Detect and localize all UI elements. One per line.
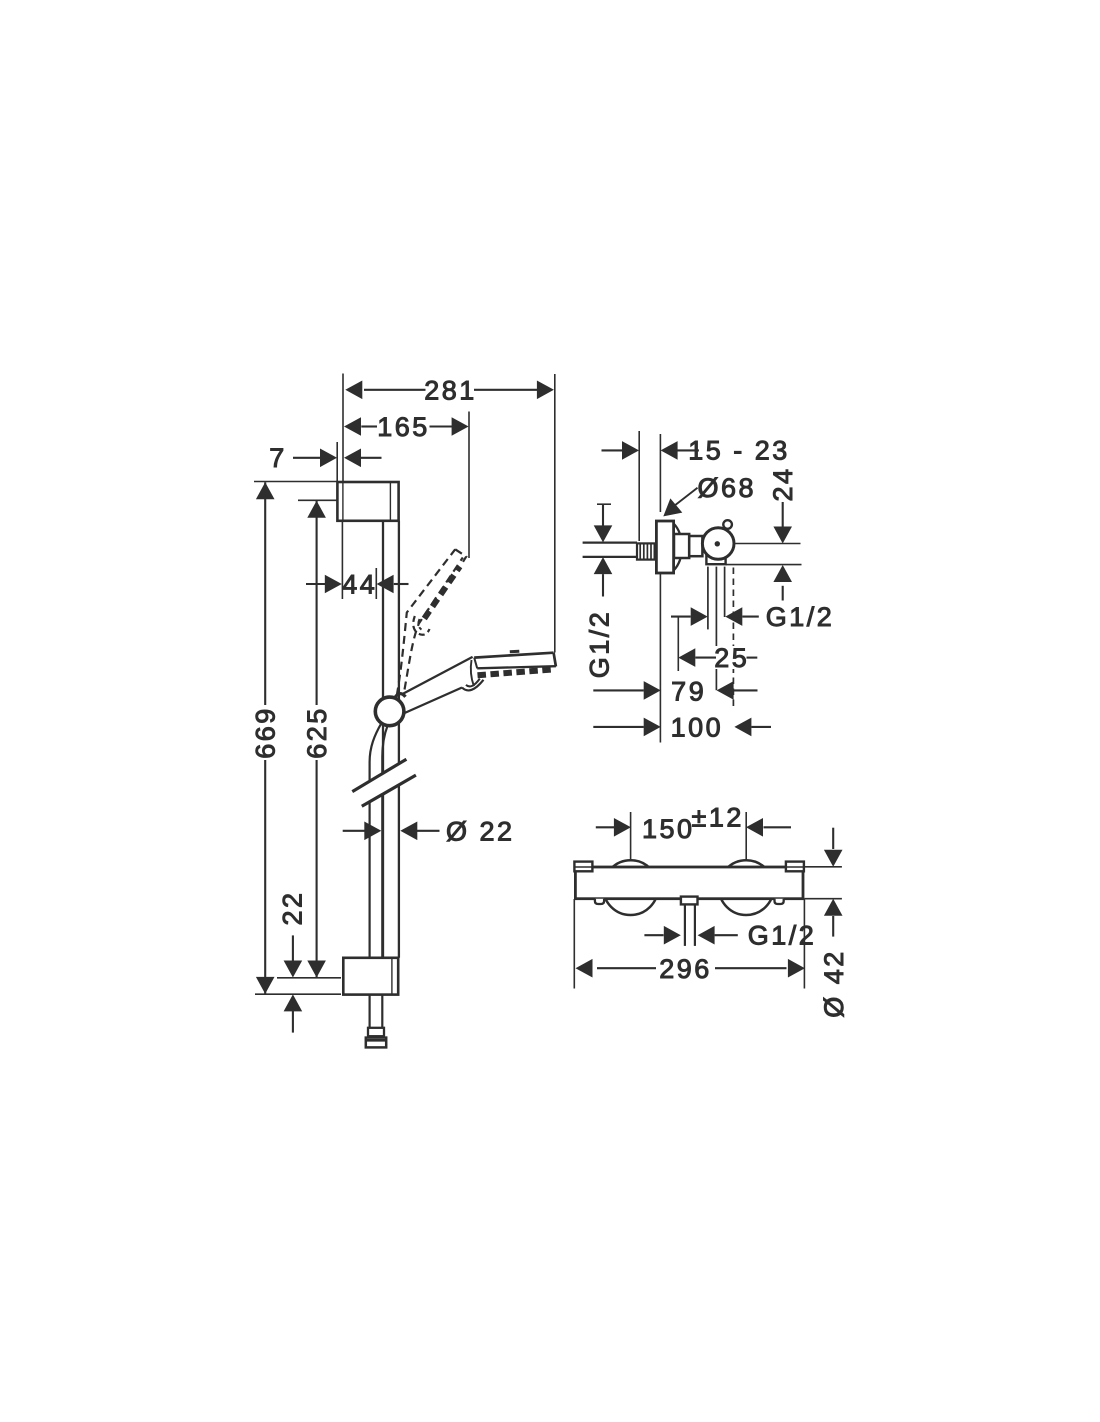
svg-text:Ø68: Ø68 xyxy=(698,473,757,503)
svg-text:100: 100 xyxy=(671,713,724,743)
svg-text:7: 7 xyxy=(269,443,287,473)
svg-text:79: 79 xyxy=(671,676,706,706)
svg-text:15 - 23: 15 - 23 xyxy=(688,436,790,466)
svg-text:296: 296 xyxy=(659,954,712,984)
svg-text:22: 22 xyxy=(278,890,308,925)
svg-text:150: 150 xyxy=(642,814,695,844)
svg-text:Ø 42: Ø 42 xyxy=(819,949,849,1018)
svg-text:±12: ±12 xyxy=(692,803,744,833)
svg-text:24: 24 xyxy=(768,466,798,501)
svg-text:Ø 22: Ø 22 xyxy=(446,816,515,846)
svg-text:25: 25 xyxy=(714,643,749,673)
svg-text:669: 669 xyxy=(251,706,281,759)
svg-text:G1/2: G1/2 xyxy=(748,921,817,951)
svg-text:165: 165 xyxy=(377,412,430,442)
svg-text:44: 44 xyxy=(342,570,377,600)
svg-text:625: 625 xyxy=(302,706,332,759)
svg-text:G1/2: G1/2 xyxy=(584,610,614,679)
svg-text:281: 281 xyxy=(424,375,477,405)
svg-text:G1/2: G1/2 xyxy=(766,602,835,632)
